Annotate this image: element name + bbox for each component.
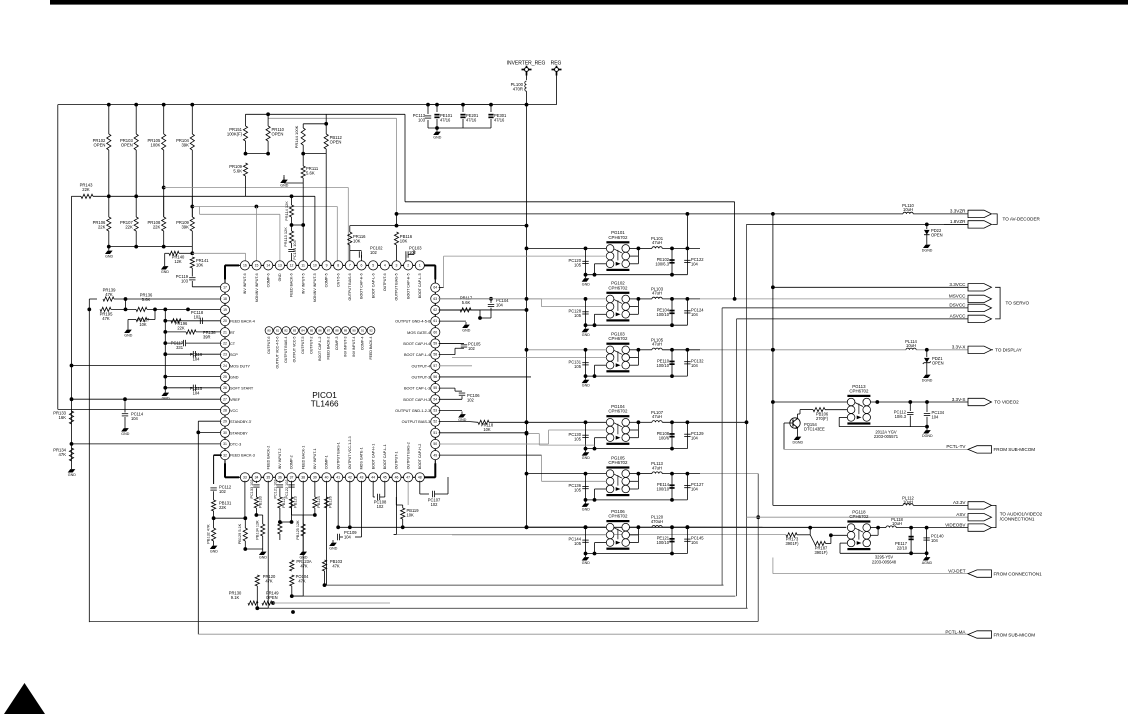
IC pin 53 (right) <box>431 406 440 415</box>
wire PG105 bottom bus <box>586 499 688 501</box>
inductor PL101 <box>652 247 662 249</box>
svg-text:5.6K: 5.6K <box>462 300 471 305</box>
wire gnd link PR111 <box>283 175 285 183</box>
wire PG101 out lead <box>638 247 652 249</box>
IC pin 36 (bottom) <box>275 473 284 482</box>
svg-text:GND: GND <box>433 136 441 140</box>
IC pin 10 (top) <box>310 261 319 270</box>
junction PR104 line 206 <box>190 205 194 209</box>
svg-text:INV INPUT-2: INV INPUT-2 <box>278 449 282 470</box>
junction PG103 input bus <box>525 348 529 352</box>
junction y225 PR116 <box>395 224 399 228</box>
wire y607 line <box>744 606 746 608</box>
IC inner pin 87 <box>325 327 333 335</box>
junction PB129 bottom <box>243 547 247 551</box>
ground decoupling row <box>436 129 438 132</box>
capacitor PE121 <box>669 538 674 540</box>
svg-text:PB129 5.1K: PB129 5.1K <box>238 523 242 544</box>
wire display bracket <box>992 349 994 351</box>
svg-text:22K: 22K <box>98 225 106 230</box>
svg-text:OUTPUT GND-4-5-6: OUTPUT GND-4-5-6 <box>395 320 430 324</box>
wire standby rail top <box>197 421 199 432</box>
capacitor PC129 <box>684 433 690 435</box>
wire pin44 to PC108 <box>373 496 375 498</box>
svg-text:30: 30 <box>223 431 227 435</box>
wire PG113 bottom bus <box>839 426 927 428</box>
wire A3.3V line <box>773 504 903 506</box>
wire PG106 input <box>527 526 607 528</box>
junction PR120 y608 <box>255 606 259 610</box>
junction PG106 cap bottom <box>584 552 588 556</box>
junction PG105 cap bottom <box>584 498 588 502</box>
wire PG104 br pin <box>629 437 638 439</box>
svg-text:3901F): 3901F) <box>786 541 800 546</box>
wire PB125 bottom <box>302 536 304 549</box>
resistor PB103 <box>322 560 326 571</box>
wire v758 PG105 <box>757 474 759 622</box>
svg-text:3.3V-X: 3.3V-X <box>952 345 966 350</box>
IC pin 25 (left) <box>220 372 229 381</box>
svg-text:17: 17 <box>223 286 227 290</box>
junction PR113 right <box>301 223 305 227</box>
IC pin 42 (bottom) <box>345 473 354 482</box>
wire outputbias3 <box>439 421 470 423</box>
IC pin 44 (bottom) <box>369 473 378 482</box>
wire PG103 bottom bus <box>586 375 688 377</box>
wire PB123 down <box>291 508 293 515</box>
IC pin 41 (bottom) <box>334 473 343 482</box>
wire PG118 gate <box>831 534 848 536</box>
wire stub left pin 32 <box>221 454 223 456</box>
wire pin50 out <box>439 443 549 445</box>
capacitor PC106 <box>459 392 465 394</box>
wire pin52 ext <box>527 433 540 435</box>
svg-text:25: 25 <box>223 375 227 379</box>
wire PG102 gate jog v <box>541 299 543 307</box>
junction PG105 out <box>637 472 641 476</box>
svg-text:62: 62 <box>433 308 437 312</box>
wire v722 DSVCC <box>721 308 723 585</box>
svg-text:MSVCC: MSVCC <box>949 294 966 299</box>
svg-text:10K: 10K <box>400 239 408 244</box>
resistor PR118 <box>478 420 489 424</box>
wire y518 link <box>214 517 246 519</box>
svg-text:OPEN: OPEN <box>932 361 944 366</box>
wire PB125 top <box>302 515 304 524</box>
junction PC134 top <box>925 400 929 404</box>
junction pin37 col <box>290 520 294 524</box>
junction PR102 top <box>107 103 111 107</box>
wire PR187 jog <box>830 535 832 543</box>
svg-text:102: 102 <box>377 504 385 509</box>
wire y584 corner <box>723 584 725 586</box>
svg-text:FEED BACK-2: FEED BACK-2 <box>266 446 270 470</box>
svg-text:GND: GND <box>161 270 169 274</box>
capacitor PC131 <box>582 362 588 364</box>
junction PR149 <box>271 601 275 605</box>
svg-text:10K: 10K <box>483 427 491 432</box>
wire PB132 gnd <box>213 541 215 543</box>
svg-text:BOOT CAP-H-6: BOOT CAP-H-6 <box>360 273 364 299</box>
wire PR138 to RT pin <box>196 331 222 333</box>
wire PC116 left <box>165 353 193 355</box>
svg-text:39K: 39K <box>181 225 189 230</box>
wire PB103 tail <box>324 571 326 585</box>
ground PR134 <box>71 467 73 470</box>
wire PG105 out lead <box>638 473 652 475</box>
wire PG101 br pin <box>629 263 638 265</box>
junction PB103 y585 <box>323 583 327 587</box>
wire PR104 col up from rail <box>191 247 193 254</box>
wire video2 out <box>870 401 968 403</box>
svg-text:OUTPUT-1: OUTPUT-1 <box>395 452 399 470</box>
svg-text:10K: 10K <box>139 322 147 327</box>
svg-text:INV INPUT-5: INV INPUT-5 <box>301 273 305 294</box>
IC pin 32 (left) <box>220 451 229 460</box>
junction pin15 tap <box>255 205 259 209</box>
IC pin 37 (bottom) <box>287 473 296 482</box>
IC pin 34 (bottom) <box>252 473 261 482</box>
wire PC121 down <box>279 488 281 497</box>
resistor PB124 <box>313 497 317 508</box>
wire PG103 input <box>527 349 607 351</box>
junction PG103 input cap <box>584 348 588 352</box>
junction pin39 col <box>313 513 317 517</box>
capacitor PC118 <box>199 318 201 324</box>
resistor PB121 <box>278 497 282 508</box>
svg-text:FROM SUB-MICOM: FROM SUB-MICOM <box>994 447 1036 452</box>
svg-text:105: 105 <box>574 436 582 441</box>
wire PG102 bl pin <box>595 313 607 315</box>
junction PG105 input bus <box>525 472 529 476</box>
svg-text:OUTPUT VCC-5: OUTPUT VCC-5 <box>293 336 297 362</box>
wire left rail x71 <box>71 196 73 466</box>
ground PC109 <box>332 540 334 543</box>
junction pin33 col y518 <box>243 516 247 520</box>
wire pin63 out <box>439 298 491 300</box>
wire PG105 input <box>527 473 607 475</box>
wire PC104 gnd link <box>480 317 491 319</box>
svg-text:47K: 47K <box>59 452 67 457</box>
svg-text:CPH6702: CPH6702 <box>849 388 869 393</box>
svg-text:DGND: DGND <box>793 441 804 445</box>
wire gray line y187 drop <box>347 188 349 262</box>
wire PC102 drop <box>349 251 351 262</box>
wire PG104 right tie <box>637 422 639 437</box>
wire gnd node drop <box>479 310 481 318</box>
wire PG101 bottom bus <box>586 274 688 276</box>
wire PR115 down <box>349 245 351 251</box>
wire PG105 tr pin <box>629 473 638 475</box>
junction y527 PB119 <box>401 525 405 529</box>
svg-text:BOOT CAP-H-4: BOOT CAP-H-4 <box>403 342 430 346</box>
wire PB121 down <box>279 508 281 522</box>
svg-text:OPEN: OPEN <box>330 140 342 145</box>
junction PE117 bottom <box>909 551 913 555</box>
svg-text:16: 16 <box>243 264 247 268</box>
wire 3.3VCC line <box>773 286 968 288</box>
junction PG106 bl <box>593 552 597 556</box>
IC pin 6 (top) <box>357 261 366 270</box>
junction y527 PG106 <box>584 525 588 529</box>
wire mid rail corner down <box>314 196 316 261</box>
IC pin 7 (top) <box>345 261 354 270</box>
wire PR137 up <box>154 309 156 319</box>
svg-text:PB123: PB123 <box>294 496 298 507</box>
junction PG101 input cap <box>584 247 588 251</box>
wire 3.3V-X line <box>700 349 906 351</box>
svg-text:GND: GND <box>162 397 170 401</box>
wire PC145 col <box>686 527 688 553</box>
svg-text:INV INPUT-4: INV INPUT-4 <box>352 336 356 356</box>
svg-text:45: 45 <box>383 475 387 479</box>
resistor PR141 <box>190 257 194 268</box>
junction PR103 top <box>134 103 138 107</box>
IC inner pin 91 <box>359 327 367 335</box>
svg-text:DSVCC: DSVCC <box>949 303 966 308</box>
IC pin 35 (bottom) <box>264 473 273 482</box>
svg-text:GND: GND <box>280 184 288 188</box>
svg-text:PB132 47K: PB132 47K <box>207 524 211 544</box>
bracket TO AUDIO1/VIDEO2 <box>991 505 996 527</box>
svg-text:22: 22 <box>223 342 227 346</box>
wire PE117 col <box>910 528 912 554</box>
wire PR110 top <box>267 114 269 126</box>
wire PG102 right tie <box>637 299 639 314</box>
IC pin 9 (top) <box>322 261 331 270</box>
wire PG106 tr pin <box>629 526 638 528</box>
wire pin61 to PR117 <box>439 309 460 311</box>
wire PC107 right up <box>447 477 449 494</box>
wire ASVCC line <box>737 318 969 320</box>
svg-text:331: 331 <box>176 345 184 350</box>
svg-text:BOOT CAP-L-2: BOOT CAP-L-2 <box>318 336 322 360</box>
wire PL100 to bus <box>526 91 528 104</box>
wire PG118 bl pin <box>840 542 848 544</box>
wire PG101 gate <box>444 255 607 257</box>
capacitor PC121 <box>277 484 283 486</box>
junction mid rail PR103 <box>134 194 138 198</box>
svg-text:80: 80 <box>267 329 271 333</box>
svg-text:90: 90 <box>352 329 356 333</box>
capacitor PC113 <box>425 115 431 117</box>
svg-text:86: 86 <box>318 329 322 333</box>
svg-text:88: 88 <box>335 329 339 333</box>
wire PB133 down <box>255 508 257 515</box>
IC pin 22 (left) <box>220 339 229 348</box>
capacitor PC144 <box>582 539 588 541</box>
svg-text:REG: REG <box>551 61 562 67</box>
svg-text:43: 43 <box>360 475 364 479</box>
wire output4 out <box>439 365 472 367</box>
junction bus pin52 <box>525 432 529 436</box>
wire PG113 bl pin <box>839 416 847 418</box>
svg-text:COMP-1: COMP-1 <box>325 455 329 469</box>
svg-text:103: 103 <box>181 279 189 284</box>
wire PG105 gate <box>542 480 607 482</box>
wire PG102 out lead <box>638 298 652 300</box>
junction x71 vref <box>70 397 74 401</box>
svg-text:47K: 47K <box>102 316 110 321</box>
svg-text:104: 104 <box>496 303 504 308</box>
svg-text:38: 38 <box>301 475 305 479</box>
capacitor PC145 <box>684 538 690 540</box>
svg-text:21: 21 <box>223 330 227 334</box>
IC pin 28 (left) <box>220 406 229 415</box>
svg-text:104: 104 <box>691 312 699 317</box>
junction PG101 bl <box>593 273 597 277</box>
svg-text:ASVCC: ASVCC <box>950 314 967 319</box>
wire bootcap h3 <box>439 398 462 400</box>
junction PG118 out tie <box>876 526 880 530</box>
svg-text:GND: GND <box>278 273 282 281</box>
wire PG105 bl drop <box>594 489 596 500</box>
svg-text:OUTPUT-4: OUTPUT-4 <box>412 364 431 368</box>
wire PC114 gnd <box>124 417 126 426</box>
resistor PB123 <box>289 497 293 508</box>
wire INVERTER REG down <box>526 76 528 81</box>
capacitor PE108 <box>669 433 674 435</box>
inductor PL100 <box>525 81 527 91</box>
wire decoupling row top link <box>428 104 491 106</box>
junction PG113 out a <box>875 400 879 404</box>
svg-text:OUTPUT GND-1-2-3: OUTPUT GND-1-2-3 <box>395 409 430 413</box>
svg-text:105: 105 <box>574 541 582 546</box>
svg-text:PC121 102: PC121 102 <box>273 480 277 499</box>
svg-text:46: 46 <box>395 475 399 479</box>
svg-text:10uH: 10uH <box>892 521 902 526</box>
wire left matrix bottom rail <box>109 246 193 248</box>
wire y214 drop pin13 <box>279 214 281 261</box>
svg-text:35: 35 <box>266 475 270 479</box>
svg-text:470uH: 470uH <box>651 519 663 524</box>
wire PR114 down <box>291 217 293 225</box>
wire PR139 left <box>89 298 97 300</box>
junction PC114 tap <box>123 397 127 401</box>
wire PR187 left <box>810 535 814 544</box>
resistor PR114A <box>301 128 305 145</box>
svg-text:14: 14 <box>266 264 270 268</box>
wire PC102 tail <box>361 255 363 262</box>
resistor PR109 <box>190 217 194 231</box>
wire pin46 drop <box>395 481 397 535</box>
wire y608 line <box>257 607 747 609</box>
IC pin 39 (bottom) <box>310 473 319 482</box>
wire pin48 to PC107 <box>420 493 429 495</box>
svg-text:CT: CT <box>230 342 236 346</box>
wire y114 route <box>246 113 406 115</box>
resistor PB132 <box>212 528 216 541</box>
wire PG105 bl pin <box>595 488 607 490</box>
IC pin 1 (top) <box>415 261 424 270</box>
capacitor PE110 <box>669 361 674 363</box>
svg-text:MOS GATE-1: MOS GATE-1 <box>360 447 364 469</box>
wire PG105 br pin <box>629 488 638 490</box>
wire video2 input <box>773 401 848 403</box>
wire pin38 jog <box>292 595 303 597</box>
wire pin35 jog <box>257 607 268 609</box>
svg-text:CPH6702: CPH6702 <box>608 336 628 341</box>
junction PB131 bottom <box>212 516 216 520</box>
svg-text:81: 81 <box>276 329 280 333</box>
inductor PL112 <box>903 504 913 506</box>
inductor PL103 <box>652 297 662 299</box>
resistor PR140 <box>169 251 179 255</box>
resistor PR130 <box>248 601 258 605</box>
svg-text:102: 102 <box>370 250 378 255</box>
svg-text:2203-005571: 2203-005571 <box>874 434 899 439</box>
wire PG104 tr pin <box>629 421 638 423</box>
svg-text:60: 60 <box>433 330 437 334</box>
wire PR173 jog up <box>809 528 811 535</box>
svg-text:8: 8 <box>337 264 339 268</box>
wire pin42 drop <box>349 481 351 528</box>
wire PG103 mr pin <box>629 357 638 359</box>
svg-text:GND: GND <box>259 556 267 560</box>
resistor PR138 <box>186 330 196 334</box>
capacitor PC127 <box>684 485 690 487</box>
svg-text:5.6K: 5.6K <box>142 297 151 302</box>
IC corner reinforcement <box>225 264 239 266</box>
ground PR137 <box>127 327 129 330</box>
capacitor PC136 <box>582 486 588 488</box>
svg-text:OUTPUT-6: OUTPUT-6 <box>383 273 387 291</box>
wire PC112b tail <box>909 416 911 427</box>
wire PR106 lower lead <box>108 231 110 247</box>
svg-text:47K: 47K <box>265 579 273 584</box>
wire VREF line <box>72 398 222 400</box>
wire stub left pin 27 <box>221 398 223 400</box>
wire PG118 tie v <box>877 528 879 536</box>
wire stub left pin 28 <box>221 409 223 411</box>
wire 3.3VZR lead <box>397 213 904 215</box>
svg-text:FEED BACK-1: FEED BACK-1 <box>301 446 305 470</box>
wire PG104 input <box>527 421 607 423</box>
wire pin38 drop <box>302 481 304 596</box>
wire PC127 col <box>686 474 688 500</box>
junction PE102 bottom <box>670 273 674 277</box>
IC pin 47 (bottom) <box>404 473 413 482</box>
wire PG101 out rise <box>686 214 688 249</box>
svg-text:PR113 12K: PR113 12K <box>283 227 288 247</box>
ground PR111 <box>283 177 285 180</box>
IC pin 11 (top) <box>299 261 308 270</box>
wire v736 ASVCC <box>736 319 738 596</box>
junction PG102 out <box>637 297 641 301</box>
wire PC103 lead <box>408 254 414 256</box>
junction PG106 input cap <box>584 525 588 529</box>
svg-text:47K: 47K <box>300 564 308 569</box>
capacitor PC134 <box>924 412 930 414</box>
IC inner pin 89 <box>342 327 350 335</box>
top title bar <box>50 0 1128 5</box>
junction chain top <box>163 308 167 312</box>
wire PG102 tr pin <box>629 298 638 300</box>
svg-text:100/10: 100/10 <box>656 540 669 545</box>
svg-text:TO VIDEO2: TO VIDEO2 <box>994 400 1019 405</box>
svg-text:/CONNECTION1: /CONNECTION1 <box>1000 517 1035 522</box>
wire PB119 top <box>402 505 404 508</box>
IC pin 48 (bottom) <box>415 473 424 482</box>
wire y549 link <box>245 548 262 550</box>
svg-text:26: 26 <box>223 386 227 390</box>
svg-text:AGND: AGND <box>922 561 933 565</box>
wire 3.3VZR lead2 <box>913 213 968 215</box>
IC pin 26 (left) <box>220 384 229 393</box>
svg-text:13: 13 <box>278 264 282 268</box>
svg-text:INV INPUT-3: INV INPUT-3 <box>344 336 348 356</box>
svg-text:49: 49 <box>433 453 437 457</box>
